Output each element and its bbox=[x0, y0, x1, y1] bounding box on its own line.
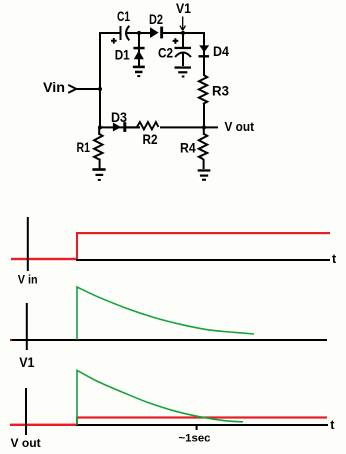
svg-text:~1sec: ~1sec bbox=[179, 433, 211, 445]
svg-text:V1: V1 bbox=[19, 354, 34, 370]
svg-text:C1: C1 bbox=[117, 8, 130, 24]
svg-text:V in: V in bbox=[18, 275, 38, 287]
svg-text:R4: R4 bbox=[180, 139, 196, 155]
svg-text:D2: D2 bbox=[149, 11, 163, 27]
svg-text:R3: R3 bbox=[212, 83, 229, 99]
svg-text:V out: V out bbox=[225, 120, 255, 134]
svg-text:V1: V1 bbox=[176, 0, 191, 16]
svg-text:D4: D4 bbox=[213, 43, 229, 59]
svg-text:C2: C2 bbox=[158, 45, 173, 61]
svg-text:D1: D1 bbox=[115, 47, 130, 63]
svg-text:D3: D3 bbox=[111, 109, 127, 125]
svg-text:R2: R2 bbox=[143, 131, 158, 147]
svg-text:R1: R1 bbox=[77, 139, 91, 155]
svg-text:V out: V out bbox=[11, 436, 41, 450]
svg-text:Vin: Vin bbox=[43, 79, 65, 95]
